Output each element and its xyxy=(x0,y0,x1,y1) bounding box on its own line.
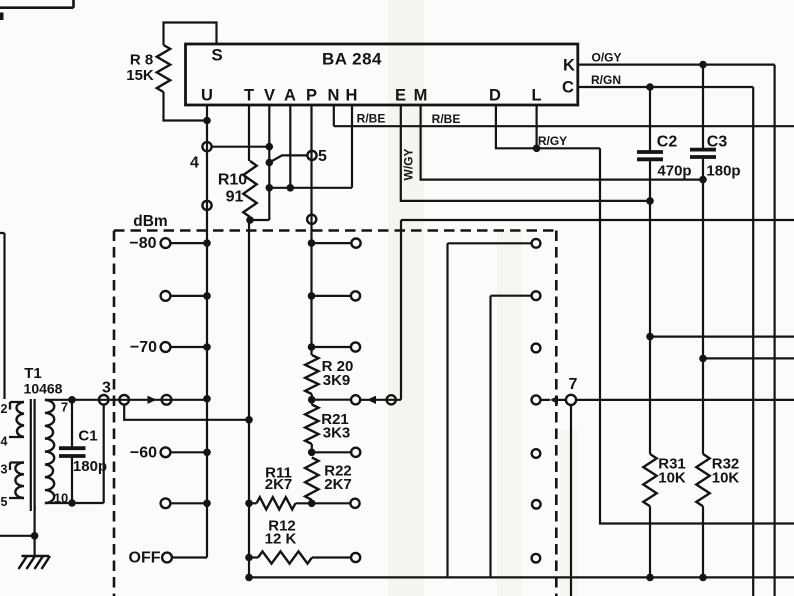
svg-text:−60: −60 xyxy=(130,444,157,461)
op-amp/IC U1 BA 284 xyxy=(186,44,578,105)
svg-text:L: L xyxy=(531,87,541,105)
svg-text:P: P xyxy=(306,87,317,105)
svg-text:K: K xyxy=(563,57,575,75)
junction M/C3 xyxy=(699,176,707,184)
contact circle row6 mid xyxy=(350,499,359,508)
junction D/L xyxy=(533,145,541,153)
svg-text:180p: 180p xyxy=(706,163,740,180)
pole contact circle xyxy=(119,395,129,405)
wire secondary bottom return xyxy=(45,502,104,504)
junction bus T xyxy=(245,574,253,582)
contact circle row6 right xyxy=(532,500,541,509)
wire -70 P to contact xyxy=(312,346,351,348)
junction C/C2 xyxy=(646,83,654,91)
junctions on U line xyxy=(203,239,211,247)
wire row4 P to contact xyxy=(312,399,351,401)
wire T line upper xyxy=(248,105,250,161)
contact circle row2 right xyxy=(532,291,541,300)
junction -60 P xyxy=(308,449,316,457)
svg-text:91: 91 xyxy=(226,189,244,206)
contact circle -60 right xyxy=(532,449,541,458)
wire core to ground xyxy=(33,506,35,556)
svg-text:OFF: OFF xyxy=(129,550,161,567)
pole circle middle xyxy=(387,395,396,404)
wire T line lower xyxy=(248,220,250,577)
contact circle row4 mid xyxy=(351,395,360,404)
contact circle row2 mid xyxy=(351,291,360,300)
svg-text:H: H xyxy=(346,87,358,105)
junction K/C3 xyxy=(699,61,707,69)
node 7 circle xyxy=(566,395,576,405)
wire -80 P to contact xyxy=(312,242,352,244)
svg-text:S: S xyxy=(211,46,222,65)
wire -80 to U xyxy=(170,242,207,244)
T1 primary winding upper pins 2-4 xyxy=(17,402,24,437)
wire bottom bus xyxy=(249,576,794,578)
svg-text:C2: C2 xyxy=(657,134,678,151)
contact circle row4 left xyxy=(162,395,172,405)
wire wiper to contact 5 xyxy=(269,155,307,162)
wire node7 down xyxy=(570,405,572,596)
wire pole down to T line xyxy=(124,405,249,420)
contact circle OFF right xyxy=(532,554,541,563)
wire left-edge to T1 primary xyxy=(0,233,10,410)
dBm attenuator dashed enclosure xyxy=(114,229,556,232)
svg-text:R/GY: R/GY xyxy=(538,134,567,148)
wire row6 to U xyxy=(170,502,207,504)
ground symbol xyxy=(22,555,50,558)
wire row from C2 to right edge xyxy=(650,336,794,338)
wire E line to C2 xyxy=(401,105,650,201)
resistor R10 91 xyxy=(243,161,256,217)
junction C2 row xyxy=(646,333,654,341)
svg-text:V: V xyxy=(264,87,275,105)
junction row6 P xyxy=(308,500,316,508)
svg-text:10468: 10468 xyxy=(24,381,63,397)
contact circle row2 left xyxy=(161,291,171,301)
svg-text:10K: 10K xyxy=(712,469,740,486)
svg-text:−70: −70 xyxy=(130,339,157,356)
svg-text:R10: R10 xyxy=(218,172,247,189)
svg-text:12 K: 12 K xyxy=(265,530,297,547)
svg-text:E: E xyxy=(395,87,406,105)
junction A/H row xyxy=(287,184,295,192)
svg-text:10K: 10K xyxy=(658,469,686,486)
wire V line xyxy=(268,105,270,220)
svg-text:C3: C3 xyxy=(707,134,728,151)
wire input row from T1 to U line xyxy=(45,399,207,401)
junction E/C2 xyxy=(646,197,654,205)
wiper arrow middle section xyxy=(367,396,376,404)
svg-text:15K: 15K xyxy=(126,67,154,84)
svg-text:dBm: dBm xyxy=(133,213,167,230)
svg-text:M: M xyxy=(414,87,428,105)
wire P line xyxy=(310,105,312,355)
resistor R20 3K9 xyxy=(305,355,318,394)
junction bus R32 xyxy=(699,574,707,582)
wire N line and R/BE bus xyxy=(334,105,794,126)
resistor R21 3K3 xyxy=(305,405,318,445)
capacitor C1 180p xyxy=(71,400,73,447)
svg-text:2K7: 2K7 xyxy=(324,476,352,493)
capacitor C2 470p xyxy=(649,87,651,151)
svg-text:N: N xyxy=(328,87,340,105)
contact circle row4 right xyxy=(532,395,541,404)
contact circle 5 on P line xyxy=(307,151,316,160)
contact circle -80 right xyxy=(532,239,541,248)
resistor R22 2K7 xyxy=(305,457,318,500)
wire OFF to U corner xyxy=(172,556,207,558)
svg-text:C: C xyxy=(562,79,574,97)
wire row2 right to feed line xyxy=(491,296,532,578)
contact circle on P line xyxy=(307,215,316,224)
wire row2 P to contact xyxy=(312,295,351,297)
wire node3 down to secondary return xyxy=(103,405,105,504)
svg-text:7: 7 xyxy=(61,400,68,415)
wire A line xyxy=(289,105,291,188)
resistor R12 12K xyxy=(249,556,258,558)
svg-text:5: 5 xyxy=(1,495,8,509)
node 3 contact circle xyxy=(99,395,109,405)
wire K output O/GY xyxy=(578,65,775,596)
svg-text:180p: 180p xyxy=(73,458,107,475)
junction ground wire xyxy=(31,532,39,540)
svg-text:T: T xyxy=(244,87,254,105)
wire U line vertical xyxy=(206,105,208,558)
T1 core xyxy=(31,399,35,511)
wire row2 to U xyxy=(170,295,207,297)
junctions on V line xyxy=(266,143,274,151)
svg-text:7: 7 xyxy=(569,376,578,393)
svg-text:5: 5 xyxy=(318,148,327,165)
svg-text:U: U xyxy=(201,87,213,105)
svg-text:4: 4 xyxy=(190,155,199,172)
resistor R11 2K7 xyxy=(249,502,257,504)
contact circle -70 mid xyxy=(351,342,360,351)
svg-text:R 8: R 8 xyxy=(130,52,153,69)
wiper arrow left section xyxy=(148,396,157,404)
wire long row from middle wiper corner xyxy=(401,219,794,221)
svg-text:3K3: 3K3 xyxy=(323,425,351,442)
junction C3 row xyxy=(699,355,707,363)
svg-text:2K7: 2K7 xyxy=(265,476,293,493)
svg-text:2: 2 xyxy=(1,402,8,416)
junction row4 P xyxy=(308,396,316,404)
svg-text:C1: C1 xyxy=(78,427,97,444)
wire -70 to U xyxy=(170,346,207,348)
svg-text:W/GY: W/GY xyxy=(402,149,416,181)
wire M line to C3 xyxy=(421,105,703,180)
contact circle -60 mid xyxy=(351,448,360,457)
svg-text:R/GN: R/GN xyxy=(591,73,621,87)
svg-text:BA 284: BA 284 xyxy=(322,50,382,69)
wire -60 to U xyxy=(170,451,207,453)
svg-text:D: D xyxy=(489,87,501,105)
svg-text:R/BE: R/BE xyxy=(432,112,461,126)
svg-text:470p: 470p xyxy=(657,163,691,180)
contact circle -80 left xyxy=(161,238,171,248)
junction C1 bottom xyxy=(68,499,76,507)
svg-text:T1: T1 xyxy=(24,365,42,382)
wire -80 right to feed line xyxy=(448,243,532,577)
T1 primary winding lower pins 3-5 xyxy=(15,463,24,499)
contact circle OFF left xyxy=(162,553,172,563)
junctions on P line xyxy=(308,239,316,247)
wire H line xyxy=(351,105,353,188)
contact circle -60 left xyxy=(161,447,171,457)
contact circle OFF mid xyxy=(351,553,360,562)
T1 secondary winding pins 7-10 xyxy=(45,400,54,503)
wire L line xyxy=(535,105,537,148)
wire -60 P to contact xyxy=(312,451,351,453)
svg-text:O/GY: O/GY xyxy=(591,51,621,65)
junction C1 top xyxy=(68,396,76,404)
svg-text:−80: −80 xyxy=(129,235,156,252)
svg-text:3: 3 xyxy=(1,463,8,477)
capacitor C3 180p xyxy=(702,65,704,149)
wire R8 top to IC pin S xyxy=(164,23,217,46)
junction R8/U xyxy=(203,117,211,125)
wire R8 bottom to U line xyxy=(164,92,208,121)
wire right wiper xyxy=(541,399,566,401)
contact circle -70 left xyxy=(161,342,171,352)
wire C output R/GN xyxy=(578,87,753,596)
svg-text:R/BE: R/BE xyxy=(357,112,386,126)
wire D line R/GY xyxy=(496,105,600,148)
resistor R31 10K xyxy=(643,454,656,506)
wire row from C3 to right edge xyxy=(703,357,794,359)
junction bus R31 xyxy=(646,574,654,582)
partial component box top-left xyxy=(0,0,74,8)
wire H row horizontal xyxy=(269,187,352,189)
resistor R32 10K xyxy=(696,454,709,506)
svg-text:4: 4 xyxy=(1,435,8,449)
svg-text:3K9: 3K9 xyxy=(323,372,351,389)
wire middle wiper to corner xyxy=(360,220,401,400)
wire row6 P to contact xyxy=(312,502,351,504)
wiper arrow right section xyxy=(550,396,558,404)
wire R/GY vertical down right side xyxy=(600,148,794,523)
node 4 contact circles on U line xyxy=(202,142,211,151)
junctions on T line xyxy=(245,416,253,424)
svg-text:3: 3 xyxy=(102,380,111,397)
contact circle -70 right xyxy=(532,344,541,353)
wire ground row to left edge xyxy=(0,535,35,537)
contact circle -80 mid xyxy=(351,239,360,248)
wire node7 to right edge xyxy=(576,399,794,401)
wire R10 bottom to V line xyxy=(250,217,269,220)
resistor R8 15K xyxy=(157,45,170,92)
contact circle row6 left xyxy=(161,498,171,508)
junction R10 bottom xyxy=(246,216,254,224)
wire node4 row to V xyxy=(212,146,270,148)
svg-text:A: A xyxy=(284,87,296,105)
